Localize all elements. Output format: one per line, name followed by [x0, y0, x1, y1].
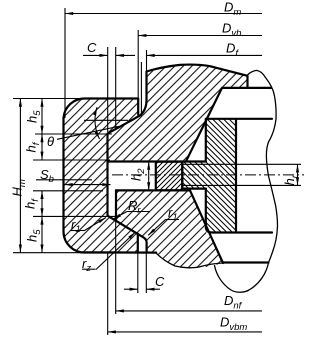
svg-text:Dnf: Dnf: [224, 293, 243, 312]
svg-text:h5: h5: [25, 110, 44, 123]
svg-text:C: C: [155, 274, 165, 289]
svg-text:Dvbm: Dvbm: [220, 315, 247, 334]
svg-text:hf: hf: [24, 141, 43, 152]
svg-text:Sb: Sb: [40, 167, 54, 185]
svg-text:C: C: [87, 40, 97, 55]
svg-text:Hm: Hm: [10, 179, 29, 196]
svg-text:θ: θ: [47, 134, 54, 149]
svg-text:Dm: Dm: [224, 0, 241, 18]
svg-text:rz: rz: [82, 256, 91, 274]
svg-text:hf: hf: [23, 198, 42, 209]
svg-text:Dvb: Dvb: [222, 21, 241, 40]
svg-text:h2: h2: [129, 168, 148, 181]
svg-text:h5: h5: [25, 229, 44, 242]
svg-text:Df: Df: [226, 41, 239, 60]
